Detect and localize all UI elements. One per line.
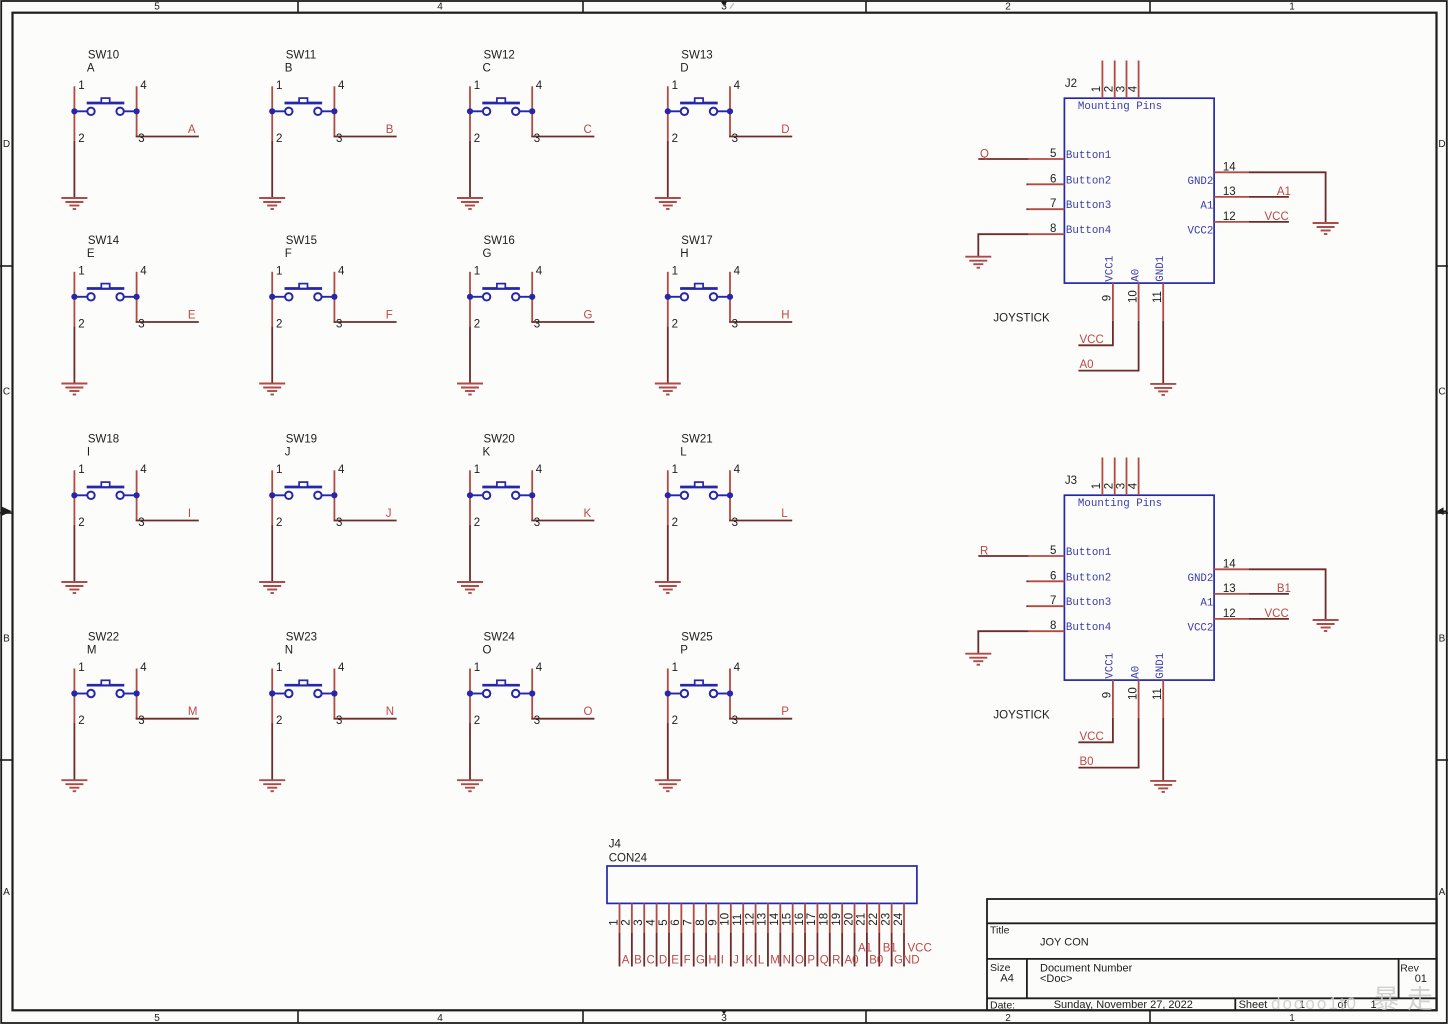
svg-text:A4: A4 bbox=[1000, 973, 1013, 985]
svg-text:P: P bbox=[807, 955, 815, 967]
svg-text:3: 3 bbox=[721, 2, 727, 13]
svg-text:14: 14 bbox=[769, 912, 781, 925]
svg-text:<Doc>: <Doc> bbox=[1040, 973, 1072, 985]
svg-text:L: L bbox=[758, 955, 765, 967]
svg-text:A0: A0 bbox=[1080, 359, 1094, 371]
svg-text:SW13: SW13 bbox=[681, 49, 712, 61]
svg-text:SW12: SW12 bbox=[484, 49, 515, 61]
svg-text:17: 17 bbox=[806, 913, 818, 926]
svg-text:O: O bbox=[483, 645, 492, 657]
svg-text:21: 21 bbox=[856, 913, 868, 926]
svg-text:P: P bbox=[781, 706, 789, 718]
svg-text:P: P bbox=[680, 645, 688, 657]
svg-text:O: O bbox=[584, 706, 593, 718]
svg-text:M: M bbox=[770, 955, 780, 967]
svg-text:D: D bbox=[3, 139, 10, 150]
svg-text:H: H bbox=[708, 955, 716, 967]
svg-text:F: F bbox=[386, 309, 393, 321]
svg-text:C: C bbox=[584, 124, 592, 136]
svg-text:A1: A1 bbox=[1277, 186, 1291, 198]
svg-text:G: G bbox=[696, 955, 705, 967]
svg-text:A: A bbox=[3, 887, 10, 898]
svg-text:B0: B0 bbox=[1080, 756, 1094, 768]
svg-text:B: B bbox=[386, 124, 394, 136]
svg-text:J3: J3 bbox=[1065, 475, 1077, 487]
svg-text:A0: A0 bbox=[844, 955, 858, 967]
svg-text:B: B bbox=[3, 634, 10, 645]
svg-text:10: 10 bbox=[720, 913, 732, 926]
svg-text:5: 5 bbox=[154, 1013, 160, 1024]
svg-text:doooo1t0: doooo1t0 bbox=[1271, 994, 1358, 1013]
svg-text:Sheet: Sheet bbox=[1239, 999, 1268, 1011]
svg-text:N: N bbox=[386, 706, 394, 718]
svg-text:2: 2 bbox=[621, 919, 633, 925]
svg-text:B: B bbox=[285, 62, 293, 74]
svg-text:A: A bbox=[188, 124, 196, 136]
svg-text:E: E bbox=[87, 248, 95, 260]
svg-text:1: 1 bbox=[1289, 1013, 1295, 1024]
svg-text:H: H bbox=[680, 248, 688, 260]
svg-text:16: 16 bbox=[794, 913, 806, 926]
svg-text:B1: B1 bbox=[1277, 583, 1291, 595]
svg-text:E: E bbox=[671, 955, 679, 967]
svg-text:C: C bbox=[1438, 387, 1445, 398]
svg-text:SW16: SW16 bbox=[484, 235, 515, 247]
svg-text:Title: Title bbox=[990, 925, 1010, 937]
svg-text:VCC: VCC bbox=[908, 943, 932, 955]
svg-text:M: M bbox=[188, 706, 198, 718]
svg-text:I: I bbox=[188, 508, 191, 520]
svg-text:A: A bbox=[622, 955, 630, 967]
svg-text:E: E bbox=[188, 309, 196, 321]
svg-text:K: K bbox=[483, 446, 491, 458]
svg-text:2: 2 bbox=[1005, 2, 1011, 13]
svg-text:SW14: SW14 bbox=[88, 235, 120, 247]
svg-text:K: K bbox=[746, 955, 754, 967]
svg-text:15: 15 bbox=[781, 913, 793, 926]
svg-text:Sunday, November 27, 2022: Sunday, November 27, 2022 bbox=[1054, 999, 1193, 1011]
svg-text:D: D bbox=[659, 955, 667, 967]
svg-text:1: 1 bbox=[1289, 2, 1295, 13]
svg-text:H: H bbox=[781, 309, 789, 321]
svg-text:1: 1 bbox=[608, 919, 620, 925]
svg-text:J4: J4 bbox=[609, 838, 622, 850]
svg-text:Date:: Date: bbox=[990, 999, 1015, 1011]
svg-text:J: J bbox=[285, 446, 291, 458]
svg-text:A: A bbox=[87, 62, 95, 74]
svg-text:A: A bbox=[1439, 887, 1446, 898]
svg-text:5: 5 bbox=[154, 2, 160, 13]
svg-text:Q: Q bbox=[820, 955, 829, 967]
svg-text:3: 3 bbox=[633, 919, 645, 925]
svg-text:D: D bbox=[1438, 139, 1445, 150]
svg-text:22: 22 bbox=[868, 913, 880, 926]
svg-text:SW15: SW15 bbox=[286, 235, 317, 247]
svg-text:11: 11 bbox=[732, 914, 744, 926]
svg-text:6: 6 bbox=[670, 919, 682, 925]
svg-text:20: 20 bbox=[843, 913, 855, 926]
svg-text:L: L bbox=[680, 446, 687, 458]
svg-text:F: F bbox=[285, 248, 292, 260]
svg-text:K: K bbox=[584, 508, 592, 520]
svg-text:R: R bbox=[832, 955, 840, 967]
svg-text:J2: J2 bbox=[1065, 78, 1077, 90]
svg-text:7: 7 bbox=[683, 919, 695, 925]
svg-text:C: C bbox=[483, 62, 491, 74]
svg-text:B0: B0 bbox=[869, 955, 883, 967]
svg-text:B: B bbox=[1439, 634, 1446, 645]
svg-text:D: D bbox=[680, 62, 688, 74]
svg-text:SW22: SW22 bbox=[88, 632, 119, 644]
svg-text:9: 9 bbox=[707, 919, 719, 925]
svg-text:L: L bbox=[781, 508, 788, 520]
svg-text:B: B bbox=[634, 955, 642, 967]
svg-text:I: I bbox=[721, 955, 724, 967]
svg-text:C: C bbox=[647, 955, 655, 967]
svg-text:SW20: SW20 bbox=[484, 433, 515, 445]
svg-text:M: M bbox=[87, 645, 97, 657]
svg-text:18: 18 bbox=[819, 913, 831, 926]
svg-text:J: J bbox=[386, 508, 392, 520]
svg-text:4: 4 bbox=[645, 919, 657, 926]
svg-text:4: 4 bbox=[437, 2, 443, 13]
svg-text:A1: A1 bbox=[858, 943, 872, 955]
svg-text:F: F bbox=[684, 955, 691, 967]
svg-text:13: 13 bbox=[757, 913, 769, 926]
svg-text:5: 5 bbox=[658, 919, 670, 925]
svg-text:D: D bbox=[781, 124, 789, 136]
svg-text:19: 19 bbox=[831, 913, 843, 926]
svg-text:SW23: SW23 bbox=[286, 632, 317, 644]
svg-text:4: 4 bbox=[437, 1013, 443, 1024]
svg-text:B1: B1 bbox=[883, 943, 897, 955]
svg-text:G: G bbox=[584, 309, 593, 321]
svg-text:SW21: SW21 bbox=[681, 433, 712, 445]
svg-text:CON24: CON24 bbox=[609, 853, 648, 865]
svg-text:12: 12 bbox=[744, 913, 756, 926]
svg-text:3: 3 bbox=[721, 1013, 727, 1024]
svg-text:SW19: SW19 bbox=[286, 433, 317, 445]
svg-text:SW17: SW17 bbox=[681, 235, 712, 247]
svg-text:JOY CON: JOY CON bbox=[1040, 937, 1089, 949]
svg-text:24: 24 bbox=[893, 912, 905, 925]
svg-text:SW24: SW24 bbox=[484, 632, 516, 644]
svg-text:C: C bbox=[3, 387, 10, 398]
svg-text:23: 23 bbox=[880, 913, 892, 926]
svg-text:Q: Q bbox=[980, 149, 989, 161]
svg-text:J: J bbox=[733, 955, 739, 967]
svg-text:SW18: SW18 bbox=[88, 433, 119, 445]
svg-text:R: R bbox=[980, 546, 988, 558]
svg-text:SW11: SW11 bbox=[286, 49, 316, 61]
svg-text:N: N bbox=[783, 955, 791, 967]
svg-text:8: 8 bbox=[695, 919, 707, 925]
svg-text:SW25: SW25 bbox=[681, 632, 712, 644]
svg-text:G: G bbox=[483, 248, 492, 260]
svg-text:I: I bbox=[87, 446, 90, 458]
svg-text:2: 2 bbox=[1005, 1013, 1011, 1024]
svg-text:GND: GND bbox=[894, 955, 920, 967]
svg-text:暴走: 暴走 bbox=[1373, 984, 1441, 1014]
svg-text:O: O bbox=[795, 955, 804, 967]
svg-text:SW10: SW10 bbox=[88, 49, 119, 61]
svg-text:N: N bbox=[285, 645, 293, 657]
